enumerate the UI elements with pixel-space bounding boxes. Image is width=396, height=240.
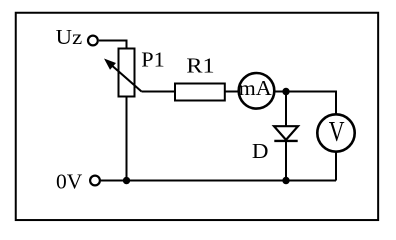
svg-text:R1: R1 [186,54,214,78]
svg-text:P1: P1 [141,48,165,72]
svg-text:0V: 0V [56,170,83,194]
svg-text:V: V [329,117,345,148]
svg-text:mA: mA [239,76,273,100]
svg-text:D: D [252,139,269,163]
svg-text:Uz: Uz [56,25,82,49]
